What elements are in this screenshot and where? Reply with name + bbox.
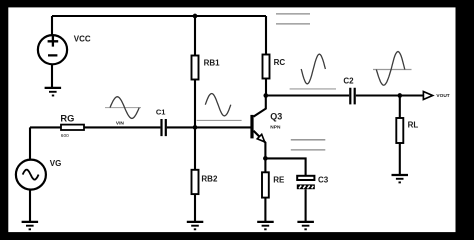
wire RC top stub: [265, 16, 267, 55]
svg-text:RG: RG: [60, 113, 74, 123]
capacitor C2: [350, 88, 354, 105]
node junction emitter: [263, 156, 268, 161]
wire VCC bottom stub: [51, 64, 53, 88]
wire RB2 top: [194, 127, 196, 169]
svg-text:VIN: VIN: [116, 120, 125, 126]
svg-text:RE: RE: [273, 175, 285, 184]
wire RB1 top stub: [194, 16, 196, 56]
svg-text:600: 600: [61, 133, 69, 139]
resistor RG: [61, 125, 84, 130]
svg-text:C3: C3: [318, 175, 329, 184]
svg-text:RB2: RB2: [201, 175, 218, 184]
svg-text:NPN: NPN: [270, 125, 281, 131]
svg-text:RC: RC: [274, 58, 286, 67]
wire RE bottom: [264, 198, 266, 222]
wire VG to RG: [30, 126, 61, 128]
wire emitter to RE: [264, 158, 266, 172]
gray marks middle: [291, 140, 326, 150]
sine VIN baseline: [105, 107, 141, 109]
wire RB2 bottom: [194, 194, 196, 222]
sine at collector underline: [290, 88, 336, 90]
wire collector to output: [266, 94, 349, 96]
vout arrow: [423, 92, 432, 100]
resistor RC: [263, 55, 270, 79]
ground (below VG): [22, 222, 38, 229]
resistor RL: [396, 118, 403, 143]
sine VIN waveform: [110, 97, 139, 119]
node junction base / RB1 / RB2: [193, 125, 198, 130]
wire VCC top stub: [51, 16, 53, 35]
wire RL top stub: [399, 96, 401, 119]
wire RB1 bottom to base line: [194, 80, 196, 128]
sine at output baseline: [373, 69, 412, 71]
wire RC bottom stub: [265, 79, 267, 96]
wire top rail VCC to RC: [52, 15, 266, 17]
node junction output / RL: [397, 93, 402, 98]
wire C3 bottom: [305, 189, 307, 222]
wire RG to C1: [84, 126, 160, 128]
svg-text:VCC: VCC: [74, 35, 91, 44]
sine at collector waveform: [301, 54, 325, 84]
capacitor C1: [162, 119, 166, 136]
ground (below RB2): [187, 222, 204, 229]
svg-text:RL: RL: [408, 121, 419, 130]
svg-text:RB1: RB1: [204, 58, 221, 67]
sine at output waveform: [376, 52, 405, 86]
resistor RB1: [192, 56, 199, 80]
svg-text:Q3: Q3: [270, 112, 282, 122]
ground (below RE): [257, 222, 274, 229]
gray marks top: [276, 14, 310, 24]
node junction collector: [263, 93, 268, 98]
svg-text:C2: C2: [343, 77, 354, 86]
wire C1 to base: [167, 126, 251, 128]
ground (below C3): [297, 222, 314, 229]
ground (below RL): [392, 175, 409, 182]
sine at base waveform: [205, 94, 231, 116]
source VCC: [38, 35, 67, 64]
wire VG vertical: [29, 127, 31, 159]
resistor RE: [262, 172, 269, 197]
capacitor C3 polarized: [297, 176, 315, 189]
node junction top rail / RB1: [193, 14, 198, 19]
ground (below VCC): [45, 88, 62, 96]
svg-text:C1: C1: [156, 108, 166, 117]
sine at base underline: [197, 119, 242, 121]
wire emitter node to C3: [265, 158, 305, 175]
wire C2 to vout arrow: [356, 94, 424, 96]
source VG: [16, 160, 46, 190]
wire VG bottom stub: [29, 190, 31, 222]
svg-text:VG: VG: [50, 159, 62, 168]
svg-text:VOUT: VOUT: [436, 93, 449, 99]
resistor RB2: [192, 170, 199, 194]
transistor Q3: [252, 96, 266, 159]
wire RL bottom stub: [399, 143, 401, 175]
